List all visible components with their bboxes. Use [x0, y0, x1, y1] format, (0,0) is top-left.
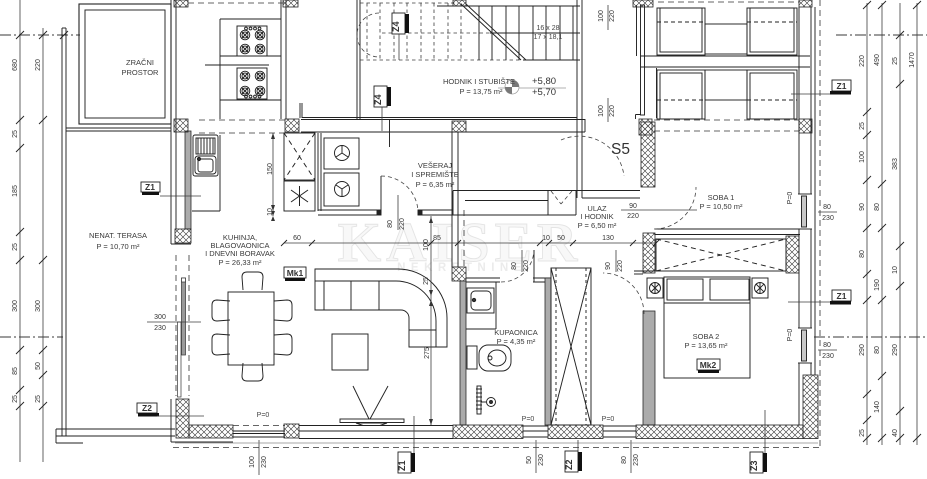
svg-text:P = 26,33 m²: P = 26,33 m²	[218, 258, 262, 267]
soba1 twin beds	[657, 70, 797, 119]
svg-text:50: 50	[557, 235, 565, 242]
svg-text:SOBA 2: SOBA 2	[693, 332, 720, 341]
washer 2	[324, 173, 359, 206]
svg-text:10: 10	[542, 235, 550, 242]
svg-text:275: 275	[424, 347, 431, 359]
furniture	[192, 8, 799, 426]
centerlines	[0, 35, 927, 337]
svg-text:100: 100	[859, 151, 866, 163]
svg-text:Z1: Z1	[837, 291, 847, 301]
svg-text:P = 10,70 m²: P = 10,70 m²	[96, 242, 140, 251]
svg-text:300: 300	[35, 300, 42, 312]
svg-text:Z1: Z1	[145, 182, 155, 192]
svg-text:SOBA 1: SOBA 1	[708, 193, 735, 202]
svg-text:80: 80	[511, 262, 518, 270]
soba2 door	[603, 273, 644, 314]
bedroom west wall pier	[641, 122, 655, 187]
wall piers top-left	[174, 0, 188, 7]
svg-text:220: 220	[617, 260, 624, 272]
svg-text:50: 50	[526, 456, 533, 464]
svg-text:17 x 18,1: 17 x 18,1	[534, 34, 563, 41]
dims around plan	[154, 10, 834, 360]
toilet	[467, 345, 511, 371]
svg-text:10: 10	[892, 266, 899, 274]
walls	[56, 0, 820, 448]
zracni prostor room	[79, 4, 171, 124]
soba1 door	[654, 187, 696, 229]
svg-text:P=0: P=0	[257, 412, 270, 419]
window soba2 east	[798, 328, 812, 363]
terrace bottom wall	[56, 429, 175, 443]
corridor bottom wall	[300, 103, 585, 132]
kitchen appliance star	[284, 181, 315, 211]
kitchen tall cabinet X	[284, 133, 315, 180]
svg-text:90: 90	[605, 262, 612, 270]
top room twin beds	[657, 8, 797, 55]
svg-text:VEŠERAJ: VEŠERAJ	[418, 161, 452, 170]
svg-text:290: 290	[859, 344, 866, 356]
entry pier wall	[641, 5, 645, 115]
terrace door sill	[233, 426, 285, 438]
svg-text:40: 40	[892, 429, 899, 437]
svg-text:Z4: Z4	[391, 21, 401, 32]
shower	[476, 386, 496, 414]
bathroom west wall	[452, 267, 466, 281]
stair east wall	[577, 0, 582, 198]
terrace top band	[66, 128, 171, 131]
svg-text:230: 230	[633, 454, 640, 466]
Z3 label bottom	[749, 410, 767, 473]
svg-text:Z1: Z1	[837, 81, 847, 91]
svg-text:Z3: Z3	[749, 460, 759, 471]
property boundary dashed	[819, 0, 821, 446]
svg-text:+5,70: +5,70	[532, 87, 556, 98]
svg-text:I DNEVNI BORAVAK: I DNEVNI BORAVAK	[205, 249, 275, 258]
dim ticks on horizontal chain	[281, 240, 659, 246]
doors	[381, 136, 696, 314]
svg-text:80: 80	[823, 342, 831, 349]
svg-text:130: 130	[602, 235, 614, 242]
right dimension chain	[859, 1, 921, 445]
svg-text:25: 25	[859, 429, 866, 437]
stove 1	[237, 26, 267, 56]
dining table	[228, 292, 274, 365]
kitchen counter	[192, 135, 220, 211]
Mk2 label	[697, 359, 720, 373]
svg-text:80: 80	[621, 456, 628, 464]
svg-text:25: 25	[859, 122, 866, 130]
Z1 label bottom	[397, 416, 415, 473]
svg-text:220: 220	[609, 10, 616, 22]
Z1 label right top	[791, 80, 851, 95]
soba2 wardrobe	[656, 236, 799, 273]
svg-text:I SPREMIŠTE: I SPREMIŠTE	[411, 170, 459, 179]
svg-text:25: 25	[35, 395, 42, 403]
svg-text:Z2: Z2	[564, 459, 574, 470]
Z2 label left	[137, 403, 204, 417]
dashed upper flight	[360, 3, 521, 60]
svg-text:220: 220	[859, 55, 866, 67]
small dim lines	[147, 5, 837, 425]
soba2 double bed	[664, 277, 750, 378]
svg-text:220: 220	[523, 260, 530, 272]
svg-text:100: 100	[598, 105, 605, 117]
laundry south wall	[318, 210, 453, 215]
svg-text:16 x 28: 16 x 28	[537, 25, 560, 32]
svg-text:680: 680	[12, 59, 19, 71]
svg-text:Z1: Z1	[397, 460, 407, 471]
hall closet	[551, 268, 591, 425]
east wall of terrace / west wall of kitchen	[171, 0, 191, 397]
Z1 label right mid	[788, 290, 851, 305]
svg-text:190: 190	[874, 279, 881, 291]
hall top wall	[418, 191, 640, 216]
svg-text:300: 300	[12, 300, 19, 312]
svg-text:230: 230	[154, 325, 166, 332]
svg-text:300: 300	[154, 314, 166, 321]
laundry west wall	[318, 133, 321, 211]
svg-text:25: 25	[423, 277, 430, 285]
stairs	[357, 0, 580, 98]
soba2 nightstand left	[647, 278, 663, 298]
Z1 label left	[141, 182, 201, 196]
watermark	[338, 212, 583, 274]
svg-text:P = 10,50 m²: P = 10,50 m²	[699, 202, 743, 211]
entry door dashes	[551, 191, 572, 204]
svg-text:P = 6,50 m²: P = 6,50 m²	[578, 221, 617, 230]
left dimension chain	[12, 0, 47, 462]
svg-text:P=0: P=0	[522, 416, 535, 423]
svg-text:Z2: Z2	[142, 403, 152, 413]
bathroom east wall	[545, 278, 551, 425]
svg-text:90: 90	[629, 203, 637, 210]
svg-text:NENAT. TERASA: NENAT. TERASA	[89, 231, 147, 240]
sliding panel white	[178, 322, 182, 397]
kitchen sink unit	[193, 135, 218, 176]
svg-text:80: 80	[859, 250, 866, 258]
soba2 nightstand right	[752, 278, 768, 298]
stove 2	[237, 68, 267, 99]
svg-text:230: 230	[822, 353, 834, 360]
east outer wall	[798, 0, 815, 425]
svg-text:P = 4,35 m²: P = 4,35 m²	[497, 337, 536, 346]
svg-text:140: 140	[874, 401, 881, 413]
svg-text:490: 490	[874, 54, 881, 66]
bathroom door	[501, 250, 534, 282]
washer 1	[324, 138, 359, 169]
svg-text:P = 13,65 m²: P = 13,65 m²	[684, 341, 728, 350]
svg-text:230: 230	[261, 456, 268, 468]
bathroom north wall	[466, 278, 551, 282]
solid lower flight	[437, 6, 580, 60]
svg-text:25: 25	[12, 130, 19, 138]
svg-text:PROSTOR: PROSTOR	[122, 68, 160, 77]
sliding glass opening dashes	[175, 255, 177, 396]
bedroom north wall band	[641, 56, 810, 67]
svg-text:85: 85	[12, 367, 19, 375]
svg-text:383: 383	[892, 158, 899, 170]
svg-text:P=0: P=0	[602, 416, 615, 423]
svg-text:80: 80	[387, 220, 394, 228]
dim arrows	[271, 133, 433, 425]
stair west wall	[357, 0, 360, 119]
tv	[340, 386, 404, 426]
svg-text:1470: 1470	[909, 52, 916, 68]
svg-text:+5,80: +5,80	[532, 76, 556, 87]
svg-text:Z4: Z4	[373, 94, 383, 105]
chairs	[212, 272, 292, 381]
svg-text:KUPAONICA: KUPAONICA	[494, 328, 538, 337]
laundry wall stub	[389, 119, 391, 147]
soba1-soba2 wall	[655, 229, 800, 235]
bottom wall band	[171, 375, 818, 442]
svg-text:230: 230	[822, 215, 834, 222]
svg-text:ZRAČNI: ZRAČNI	[126, 58, 154, 67]
svg-text:25: 25	[892, 57, 899, 65]
svg-text:100: 100	[598, 10, 605, 22]
svg-text:230: 230	[538, 454, 545, 466]
svg-text:Mk1: Mk1	[287, 268, 304, 278]
svg-text:220: 220	[399, 218, 406, 230]
top dashed cut lines	[188, 2, 799, 3]
coffee table	[332, 334, 368, 370]
window soba1 east	[798, 194, 812, 229]
Z4 label 2	[373, 86, 391, 131]
svg-text:185: 185	[12, 185, 19, 197]
svg-text:S5: S5	[611, 141, 630, 158]
svg-text:220: 220	[609, 105, 616, 117]
svg-text:P = 13,75 m²: P = 13,75 m²	[459, 87, 503, 96]
dashed overhang lines soba1	[654, 120, 799, 131]
bottom dimension labels	[249, 412, 640, 475]
stair walkline turn arc	[357, 13, 379, 57]
svg-text:100: 100	[249, 456, 256, 468]
svg-text:85: 85	[433, 235, 441, 242]
svg-text:220: 220	[627, 213, 639, 220]
Z4 label 1	[391, 13, 409, 60]
svg-text:P=0: P=0	[787, 192, 794, 205]
sofa	[315, 269, 447, 347]
Mk1 label	[284, 267, 306, 281]
svg-text:80: 80	[874, 346, 881, 354]
svg-text:25: 25	[12, 395, 19, 403]
dashed line below bottom wall	[175, 442, 818, 444]
svg-text:290: 290	[892, 344, 899, 356]
svg-text:P = 6,35 m²: P = 6,35 m²	[416, 180, 455, 189]
Z2 label bottom	[564, 440, 582, 472]
stove strip walls	[205, 0, 286, 119]
svg-text:50: 50	[35, 362, 42, 370]
entry door stairwell	[561, 136, 624, 176]
stair break line	[461, 4, 526, 60]
svg-text:80: 80	[874, 203, 881, 211]
living-hall boundary wall	[452, 132, 464, 267]
bathroom sink	[466, 282, 496, 329]
laundry door	[381, 176, 418, 213]
svg-text:80: 80	[823, 204, 831, 211]
svg-text:I HODNIK: I HODNIK	[580, 212, 613, 221]
svg-text:25: 25	[12, 243, 19, 251]
svg-text:HODNIK I STUBIŠTE: HODNIK I STUBIŠTE	[443, 77, 515, 86]
sliding panel grey	[182, 278, 186, 355]
level marker	[498, 76, 566, 98]
svg-text:90: 90	[859, 203, 866, 211]
svg-text:P=0: P=0	[787, 329, 794, 342]
svg-text:60: 60	[293, 235, 301, 242]
svg-text:220: 220	[35, 59, 42, 71]
living glass wall	[299, 426, 453, 439]
terrace west wall	[62, 28, 66, 436]
dashed opening kitchen-corridor	[199, 120, 287, 133]
svg-text:Mk2: Mk2	[700, 360, 717, 370]
